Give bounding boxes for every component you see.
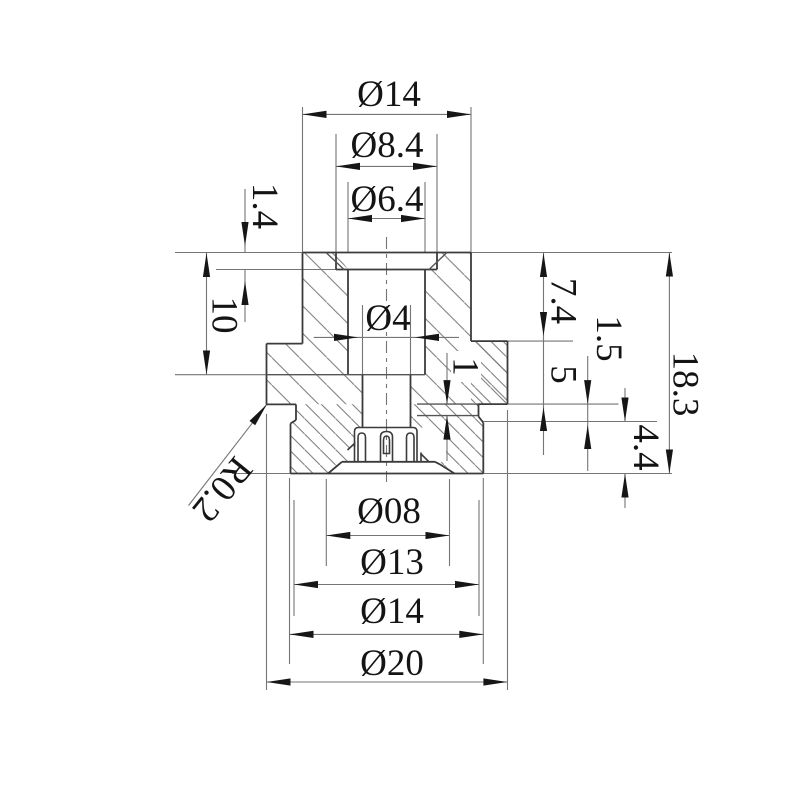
dia8.4 right extension line (436, 134, 438, 253)
part top surface edge (303, 252, 472, 254)
valve center slot (381, 432, 393, 462)
dia6.4 left extension line (347, 182, 349, 253)
dia13 right extension line (478, 500, 480, 616)
right foot diagonal (421, 454, 430, 462)
svg-text:1: 1 (445, 357, 486, 376)
svg-text:4.4: 4.4 (625, 424, 666, 470)
right ledge edge (479, 403, 508, 405)
dimension line dia20 (267, 681, 508, 683)
dia08 right extension line (449, 479, 451, 566)
dimension line 1.4 upper (244, 189, 246, 253)
dimension line 18.3 (668, 253, 670, 474)
dimension line 10 (206, 253, 208, 375)
countersink chamfer right (429, 253, 447, 270)
cavity floor step (435, 462, 440, 465)
dia8.4 left extension line (335, 134, 337, 253)
left outer lip edge (348, 444, 355, 451)
dia08 left extension line (325, 479, 327, 566)
dia14 top right extension line (470, 107, 472, 253)
inner lip line right (1) (417, 415, 479, 417)
valve left vent arch (358, 433, 366, 462)
dimension line 1.5 (587, 356, 589, 471)
bore dia6.4 left wall (347, 270, 349, 375)
svg-text:Ø8.4: Ø8.4 (351, 125, 424, 166)
svg-text:Ø4: Ø4 (365, 298, 410, 339)
bore dia4 left wall (362, 375, 364, 428)
countersink chamfer left (326, 253, 344, 270)
dimension line 4.4 lower (624, 474, 626, 509)
dimension line 7.4 and 5 (543, 253, 545, 456)
bottom surface extension line right (483, 473, 672, 475)
left chamfer (291, 420, 297, 424)
arrows 1 outside (443, 380, 450, 404)
arrows 1.4 outside (241, 222, 248, 246)
svg-text:7.4: 7.4 (543, 278, 584, 324)
bore dia4 right wall (410, 375, 412, 428)
valve cap outline (355, 428, 418, 462)
svg-text:18.3: 18.3 (665, 352, 706, 417)
cavity chamfer right (440, 464, 455, 473)
arrows dia4 outside (334, 334, 358, 341)
bottom face edge (291, 473, 484, 475)
insert body right wall (470, 253, 472, 342)
arrow 5 bottom outside (540, 407, 547, 431)
dimension line 1.4 lower (244, 270, 246, 323)
bottom cylinder right wall (482, 423, 484, 474)
valve right vent arch (407, 433, 415, 462)
counterbore floor edge (336, 269, 437, 271)
dimension line dia6.4 (348, 218, 425, 220)
svg-text:Ø08: Ø08 (357, 491, 421, 532)
dia14 bottom left extension line (289, 478, 291, 664)
dia14 bottom right extension line (482, 478, 484, 664)
arrows 7.4 (540, 253, 547, 277)
arrows dia08 (326, 532, 350, 539)
dimension line dia13 (294, 584, 479, 586)
top surface extension line left (175, 252, 303, 254)
left step edge (267, 343, 303, 345)
dia20 left extension line (266, 414, 268, 690)
dimension line 4.4 upper (624, 388, 626, 422)
dimension line dia14 top (303, 113, 472, 115)
right chamfer (479, 417, 484, 423)
svg-text:5: 5 (543, 365, 584, 384)
right groove wall (478, 404, 480, 416)
arrows 4.4 outside (621, 398, 628, 422)
counterbore left wall (335, 253, 337, 270)
right step extension line (508, 340, 574, 342)
bore dia6.4 right wall (424, 270, 426, 375)
bottom cylinder left wall (290, 424, 292, 474)
arrows dia13 (294, 581, 318, 588)
right ledge extension line (508, 403, 619, 405)
insert body left wall (302, 253, 304, 344)
center line (386, 237, 388, 482)
dimension line 1 lower (446, 416, 448, 461)
svg-text:1.5: 1.5 (588, 315, 629, 361)
svg-text:Ø14: Ø14 (360, 591, 424, 632)
bottom surface extension line left (232, 473, 291, 475)
dia4 left extension line (362, 305, 364, 375)
arrows dia6.4 (348, 215, 372, 222)
svg-text:Ø13: Ø13 (360, 542, 424, 583)
halo for label 1 (451, 351, 481, 382)
dia13 left extension line (293, 500, 295, 616)
right lower extension line (483, 421, 657, 423)
dimension line dia4 (314, 336, 459, 338)
arrows dia8.4 (336, 163, 360, 170)
mid flange left wall (266, 344, 268, 405)
left ledge edge (267, 403, 297, 405)
cavity chamfer left (328, 462, 342, 474)
counterbore depth extension line (216, 269, 336, 271)
svg-text:Ø14: Ø14 (357, 74, 421, 115)
right foot vertical (420, 453, 422, 462)
arrows dia14 top (303, 111, 327, 118)
dia6.4 right extension line (424, 182, 426, 253)
dia4 right extension line (410, 305, 412, 375)
dia14 top left extension line (302, 107, 304, 253)
right step edge (471, 340, 508, 342)
arrows 1.5 outside (584, 380, 591, 404)
svg-text:Ø6.4: Ø6.4 (351, 179, 424, 220)
dimension line dia08 (326, 535, 449, 537)
cavity floor edge (342, 461, 435, 463)
insert interface extension line left (175, 374, 267, 376)
svg-text:Ø20: Ø20 (360, 643, 424, 684)
arrows dia20 (267, 678, 291, 685)
arrows dia14 bottom (290, 631, 314, 638)
mid flange right wall (507, 341, 509, 404)
dimension line 1 upper (446, 353, 448, 404)
arrows 18.3 (666, 253, 673, 277)
R0.2 leader line (189, 404, 268, 505)
arrows 10 (203, 253, 210, 277)
dimension line dia14 bottom (290, 633, 484, 635)
counterbore right wall (436, 253, 438, 270)
valve inner dome (384, 436, 390, 454)
dimension line dia8.4 (336, 165, 437, 167)
dia20 right extension line (507, 410, 509, 690)
left ledge vertical (295, 404, 297, 420)
arrow R0.2 leader (250, 404, 268, 425)
svg-text:10: 10 (204, 297, 245, 334)
inner shoulder line right (417, 403, 479, 405)
svg-text:1.4: 1.4 (244, 183, 285, 229)
insert interface edge (267, 374, 426, 376)
top surface extension line right (471, 252, 672, 254)
